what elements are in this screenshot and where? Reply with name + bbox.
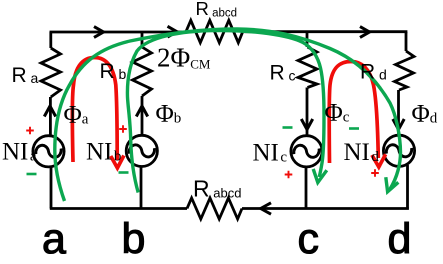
branch a wire lower xyxy=(50,167,53,209)
svg-text:b: b xyxy=(122,215,146,259)
branch d wire upper xyxy=(405,32,408,51)
svg-text:c: c xyxy=(298,215,320,259)
green arrowhead at d xyxy=(386,177,399,192)
arrow top wire 1 xyxy=(94,27,104,38)
resistor Ra xyxy=(41,48,61,97)
source NId circle xyxy=(383,135,414,166)
arrow flux up branch a xyxy=(44,106,55,117)
resistor Rabcd top xyxy=(186,20,243,42)
minus NIb xyxy=(119,171,129,174)
arrow top wire 3 xyxy=(360,27,370,38)
branch a wire mid xyxy=(49,97,52,136)
source NIb circle xyxy=(126,135,157,166)
branch a wire upper xyxy=(49,32,52,48)
resistor Rabcd bottom xyxy=(187,198,242,219)
green arrowhead at c xyxy=(313,169,327,183)
minus NId xyxy=(349,127,359,130)
red flux loop c-d xyxy=(329,62,378,164)
source NIb sine xyxy=(129,145,154,157)
plus NIb xyxy=(119,125,127,133)
wire bottom left segment xyxy=(51,207,187,208)
source NIc circle xyxy=(291,136,322,167)
arrow flux down branch d xyxy=(393,119,404,130)
wire bottom right segment xyxy=(242,207,408,208)
branch b wire lower xyxy=(140,167,143,209)
plus NId xyxy=(371,169,379,177)
green common-mode flux arc a-to-d xyxy=(55,29,401,201)
red arrowhead at b xyxy=(111,156,124,169)
branch d wire lower xyxy=(406,165,409,209)
resistor Rc xyxy=(298,47,317,88)
arrow flux up branch b xyxy=(136,106,147,117)
branch c wire upper xyxy=(306,32,309,47)
arrow bottom wire left-pointing xyxy=(261,203,271,214)
minus NIc xyxy=(283,126,293,129)
svg-text:d: d xyxy=(388,215,412,259)
source NId sine xyxy=(386,145,411,157)
arrow flux down branch c xyxy=(301,119,312,130)
source NIa circle xyxy=(33,136,64,167)
minus NIa xyxy=(27,173,37,176)
svg-text:a: a xyxy=(42,215,66,259)
wire top right segment xyxy=(244,32,406,34)
green common-mode flux arc b-to-c xyxy=(127,31,324,193)
plus NIc xyxy=(285,171,293,179)
wire top left segment xyxy=(51,32,187,33)
branch c wire mid xyxy=(306,88,309,136)
branch d wire mid xyxy=(397,90,400,135)
red flux loop a-b xyxy=(72,58,117,163)
branch c wire lower xyxy=(305,167,308,209)
arrow top wire 2 xyxy=(168,26,178,37)
source NIa sine xyxy=(36,145,61,157)
resistor Rb xyxy=(133,47,152,96)
red arrowhead at d xyxy=(372,154,386,167)
resistor Rd xyxy=(395,51,415,90)
source NIc sine xyxy=(294,145,319,157)
plus NIa xyxy=(26,127,34,135)
branch b wire mid xyxy=(141,96,144,136)
branch b wire upper xyxy=(141,32,144,47)
